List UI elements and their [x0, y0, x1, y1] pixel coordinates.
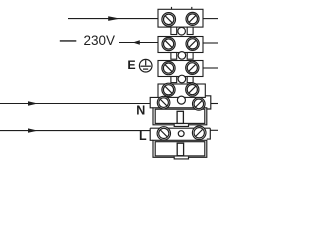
svg-text:230V: 230V — [84, 33, 116, 48]
svg-text:N: N — [136, 104, 145, 118]
svg-text:E: E — [127, 58, 135, 72]
svg-text:L: L — [139, 129, 147, 143]
